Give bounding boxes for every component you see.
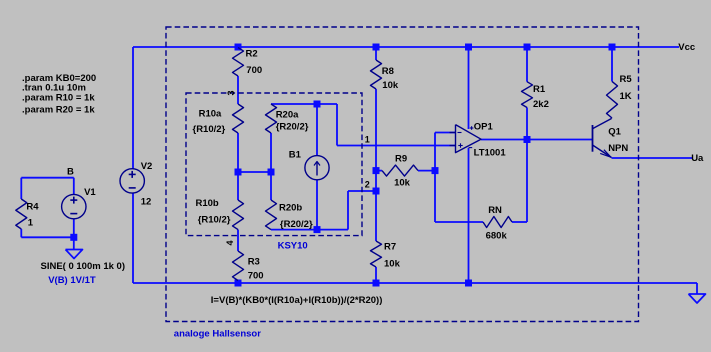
svg-text:R10b: R10b bbox=[196, 198, 219, 209]
wire V2 top to rail bbox=[132, 47, 134, 169]
node junction right bridge bbox=[268, 169, 275, 176]
svg-text:{R20/2}: {R20/2} bbox=[280, 219, 313, 230]
wire Q1 emitter to Ua bbox=[612, 157, 693, 159]
svg-text:10k: 10k bbox=[394, 177, 411, 188]
svg-text:700: 700 bbox=[248, 271, 264, 282]
svg-text:10k: 10k bbox=[382, 80, 399, 91]
svg-text:I=V(B)*(KB0*(I(R10a)+I(R10b))/: I=V(B)*(KB0*(I(R10a)+I(R10b))/(2*R20)) bbox=[211, 295, 383, 306]
wire R20a bottom to R20b top bbox=[270, 133, 272, 200]
wire to op-amp - input bbox=[435, 132, 456, 134]
wire R9 leads bbox=[376, 170, 382, 172]
node junction R3 bottom bbox=[235, 280, 242, 287]
op-amp U1 triangle bbox=[456, 125, 482, 153]
resistor R4 bbox=[16, 199, 27, 229]
wire R8 bottom to R7 top bbox=[375, 89, 377, 241]
svg-text:V(B) 1V/1T: V(B) 1V/1T bbox=[48, 275, 96, 286]
wire V1 R4 loop top bbox=[21, 177, 74, 179]
op-amp V- pin mark bbox=[469, 147, 473, 149]
resistor R8 bbox=[371, 60, 382, 89]
wire R3 bottom to rail bbox=[237, 281, 239, 284]
node junction B1 top bbox=[314, 101, 321, 108]
node junction left bridge bbox=[235, 169, 242, 176]
svg-text:R7: R7 bbox=[384, 242, 396, 253]
wire R20a top to B1 top bbox=[271, 103, 337, 105]
svg-text:{R20/2}: {R20/2} bbox=[276, 122, 309, 133]
resistor R9 bbox=[382, 165, 418, 176]
node junction R7 bottom bbox=[373, 280, 380, 287]
svg-text:1K: 1K bbox=[620, 91, 632, 102]
svg-text:{R10/2}: {R10/2} bbox=[193, 124, 226, 135]
node junction R2 top rail bbox=[235, 44, 242, 51]
wire R10b bottom to R3 (pin 4) bbox=[237, 230, 239, 251]
wire R2 bottom to R10a bbox=[237, 76, 239, 104]
resistor R5 bbox=[607, 81, 618, 118]
wire RN right lead bbox=[512, 221, 527, 223]
svg-text:R9: R9 bbox=[395, 153, 407, 164]
wire V1 bottom lead bbox=[73, 219, 75, 238]
svg-text:R20b: R20b bbox=[279, 202, 302, 213]
svg-text:4: 4 bbox=[225, 240, 235, 245]
svg-text:R2: R2 bbox=[246, 49, 258, 60]
svg-text:V1: V1 bbox=[84, 187, 96, 198]
svg-text:B: B bbox=[67, 166, 74, 177]
node junction R1 top rail bbox=[524, 44, 531, 51]
resistor R3 bbox=[233, 251, 244, 281]
wire ground stub right bbox=[696, 283, 698, 294]
resistor R20a bbox=[266, 104, 277, 133]
node junction R5 top rail bbox=[609, 44, 616, 51]
svg-text:2k2: 2k2 bbox=[533, 99, 549, 110]
node junction op-amp V+ rail bbox=[465, 44, 472, 51]
resistor R1 bbox=[522, 82, 533, 108]
svg-text:SINE( 0 100m 1k 0): SINE( 0 100m 1k 0) bbox=[41, 261, 126, 272]
ground symbol V1 bbox=[66, 250, 83, 259]
wire V1 top lead bbox=[73, 178, 75, 195]
svg-text:.param R10 = 1k: .param R10 = 1k bbox=[22, 93, 95, 104]
svg-text:LT1001: LT1001 bbox=[474, 148, 507, 159]
svg-text:3: 3 bbox=[226, 90, 236, 95]
svg-text:OP1: OP1 bbox=[474, 122, 494, 133]
voltage source V1 bbox=[62, 194, 86, 218]
svg-text:R1: R1 bbox=[533, 84, 546, 95]
svg-text:Vcc: Vcc bbox=[678, 42, 695, 53]
svg-text:680k: 680k bbox=[486, 231, 508, 242]
wire B1 top lead bbox=[316, 104, 318, 156]
svg-text:2: 2 bbox=[365, 180, 370, 190]
svg-text:700: 700 bbox=[246, 65, 262, 76]
wire R1 bottom lead bbox=[526, 108, 528, 140]
svg-text:KSY10: KSY10 bbox=[278, 241, 308, 252]
op-amp V+ pin mark bbox=[470, 127, 474, 129]
svg-text:Ua: Ua bbox=[691, 153, 704, 164]
transistor Q1 NPN bbox=[592, 125, 594, 152]
wire op-amp V- supply bbox=[468, 148, 470, 283]
resistor R10a bbox=[233, 104, 244, 133]
svg-text:.param R20 = 1k: .param R20 = 1k bbox=[22, 104, 95, 115]
node junction op-amp V- rail bbox=[465, 280, 472, 287]
wire R8 top lead bbox=[375, 47, 377, 60]
node junction V1 bottom bbox=[70, 234, 77, 241]
svg-text:1: 1 bbox=[28, 217, 34, 228]
svg-text:V2: V2 bbox=[141, 161, 153, 172]
resistor R7 bbox=[371, 241, 382, 267]
node junction node 2 bbox=[373, 188, 380, 195]
svg-text:RN: RN bbox=[488, 205, 502, 216]
svg-text:R4: R4 bbox=[26, 201, 39, 212]
resistor RN bbox=[483, 217, 512, 228]
wire R10a bottom to R10b top bbox=[237, 133, 239, 200]
resistor R2 bbox=[233, 48, 244, 77]
Q1 emitter arrow bbox=[600, 153, 611, 157]
wire op-amp output to Q1 base bbox=[481, 139, 593, 141]
svg-text:R20a: R20a bbox=[276, 109, 299, 120]
svg-text:12: 12 bbox=[141, 196, 152, 207]
dashed box analoge Hallsensor bbox=[166, 27, 639, 322]
node junction R9 left bbox=[373, 167, 380, 174]
svg-text:R3: R3 bbox=[248, 257, 260, 268]
wire RN left lead bbox=[435, 221, 483, 223]
ground symbol right bbox=[689, 294, 706, 303]
wire bottom ground rail bbox=[133, 282, 697, 284]
svg-text:B1: B1 bbox=[289, 149, 302, 160]
wire V2 bottom to ground rail bbox=[132, 193, 134, 283]
op-amp + input mark bbox=[458, 145, 462, 147]
svg-text:analoge Hallsensor: analoge Hallsensor bbox=[174, 329, 261, 340]
svg-text:1: 1 bbox=[365, 134, 370, 144]
svg-text:{R10/2}: {R10/2} bbox=[198, 214, 231, 225]
node junction R8 top rail bbox=[373, 44, 380, 51]
current source B1 bbox=[305, 156, 329, 180]
svg-text:R10a: R10a bbox=[199, 109, 222, 120]
resistor R20b bbox=[266, 200, 277, 230]
wire inverting input feedback riser bbox=[434, 133, 436, 223]
wire node 2 to divider bbox=[348, 190, 376, 192]
resistor R10b bbox=[233, 200, 244, 230]
svg-text:R8: R8 bbox=[382, 66, 394, 77]
wire R1 top lead bbox=[526, 47, 528, 82]
node junction R9 right bbox=[432, 167, 439, 174]
svg-text:10k: 10k bbox=[384, 258, 401, 269]
wire R20b bottom to node 2 bbox=[271, 229, 348, 231]
wire R7 bottom to rail bbox=[375, 267, 377, 283]
wire R4 bottom lead bbox=[20, 229, 22, 237]
dashed box KSY10 bbox=[186, 93, 362, 236]
op-amp - input mark bbox=[458, 132, 462, 134]
wire B1 bottom lead bbox=[316, 180, 318, 230]
wire node 2 riser bbox=[347, 191, 349, 230]
wire top Vcc rail bbox=[133, 46, 679, 48]
op-amp input stubs bbox=[450, 132, 456, 134]
svg-text:R5: R5 bbox=[620, 74, 633, 85]
wire bridge between R10 and R20 branches bbox=[238, 171, 271, 173]
node junction B1 bottom bbox=[314, 226, 321, 233]
svg-text:Q1: Q1 bbox=[608, 127, 621, 138]
voltage source V2 bbox=[120, 169, 144, 193]
wire node 1 riser bbox=[336, 104, 338, 146]
node junction output R1 bbox=[524, 136, 531, 143]
wire RN to output riser bbox=[526, 140, 528, 223]
wire loop bottom bbox=[21, 236, 74, 238]
wire R5 top lead bbox=[611, 47, 613, 81]
wire op-amp V+ supply bbox=[468, 47, 470, 129]
wire ground stub V1 bbox=[73, 237, 75, 249]
wire R4 top lead bbox=[20, 178, 22, 199]
wire node 1 to op-amp + input bbox=[337, 145, 456, 147]
svg-text:NPN: NPN bbox=[608, 143, 628, 154]
